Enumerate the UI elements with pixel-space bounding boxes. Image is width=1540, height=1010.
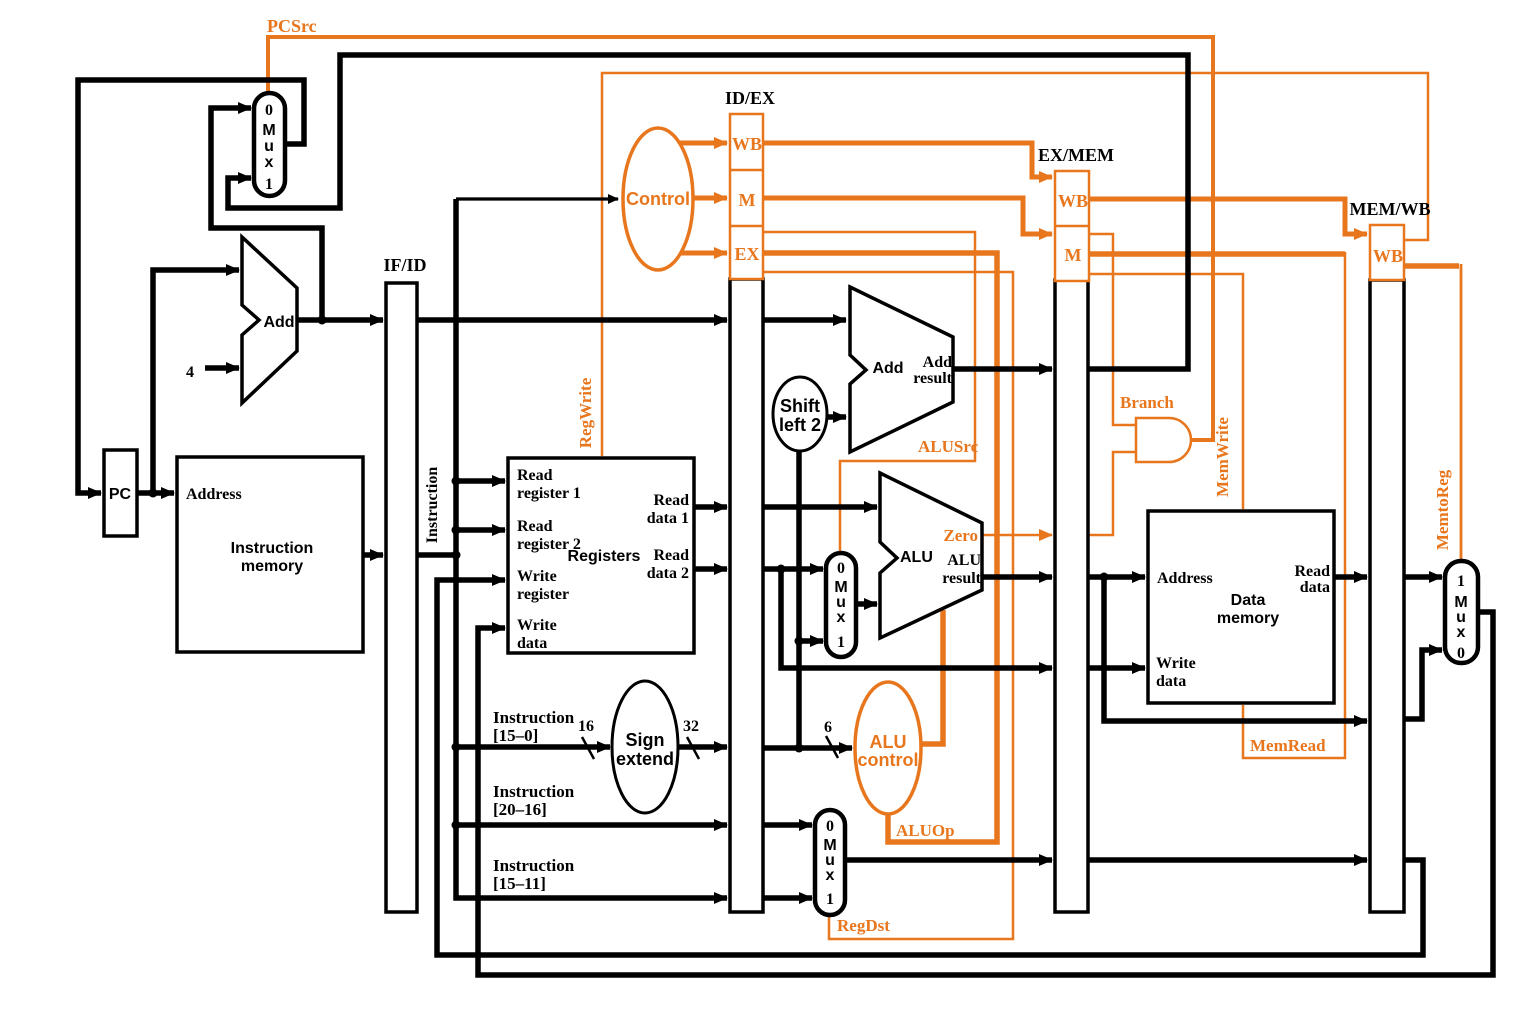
ALU xyxy=(880,473,982,638)
svg-text:Control: Control xyxy=(626,189,690,209)
svg-text:M: M xyxy=(739,190,756,210)
svg-text:RegDst: RegDst xyxy=(837,916,890,935)
svg-text:MemtoReg: MemtoReg xyxy=(1433,469,1452,550)
wire ALUSrc ID/EX to ALU B mux xyxy=(763,232,975,551)
svg-text:16: 16 xyxy=(578,718,594,735)
wire ALU result EX/MEM to data memory Address xyxy=(1089,574,1145,580)
svg-text:Read: Read xyxy=(653,492,689,509)
wire Instruction [20-16] ID/EX to RegDst mux xyxy=(763,822,812,828)
adder Add result (branch target) xyxy=(850,287,953,452)
svg-text:Add: Add xyxy=(872,360,903,377)
wire Control to ID/EX M xyxy=(692,196,727,201)
svg-text:Write: Write xyxy=(517,568,557,585)
svg-text:Read: Read xyxy=(517,467,553,484)
wire write data EX/MEM to data memory xyxy=(1089,665,1145,671)
wire immediate ID/EX to ALU control xyxy=(763,745,852,751)
svg-text:WB: WB xyxy=(732,134,762,154)
wire Read data 2 to EX/MEM write data xyxy=(781,569,1052,668)
svg-text:WB: WB xyxy=(1058,191,1088,211)
svg-text:Branch: Branch xyxy=(1120,393,1174,412)
svg-text:memory: memory xyxy=(241,558,303,575)
svg-text:0: 0 xyxy=(837,560,845,577)
mux M3 destination register xyxy=(815,810,845,915)
svg-text:Instruction: Instruction xyxy=(493,782,575,801)
pipeline register ID/EX xyxy=(725,88,775,912)
svg-text:PCSrc: PCSrc xyxy=(267,16,317,36)
wire Read data MEM/WB to result mux input 1 xyxy=(1404,574,1442,580)
wire WB bundle EX/MEM to MEM/WB xyxy=(1089,199,1367,234)
wire Zero ALU to EX/MEM xyxy=(982,534,1052,537)
svg-text:M: M xyxy=(262,122,275,139)
node instruction bus taps xyxy=(452,477,461,486)
sign extend unit xyxy=(612,681,678,813)
wire PC+4 IF/ID to ID/EX xyxy=(417,317,727,323)
svg-text:Add: Add xyxy=(263,314,294,331)
pipeline register MEM/WB xyxy=(1350,199,1431,912)
svg-text:Instruction: Instruction xyxy=(493,708,575,727)
svg-text:Zero: Zero xyxy=(943,526,978,545)
wire ALU result MEM/WB to result mux input 0 xyxy=(1404,650,1442,719)
node Read data 2 branch xyxy=(777,565,786,574)
svg-text:Instruction: Instruction xyxy=(424,467,441,544)
svg-text:control: control xyxy=(858,750,919,770)
svg-text:Address: Address xyxy=(1157,570,1213,587)
svg-text:PC: PC xyxy=(109,486,132,503)
wire PC to Add input 1 xyxy=(153,270,239,493)
svg-text:Registers: Registers xyxy=(568,548,641,565)
svg-text:[15–11]: [15–11] xyxy=(493,874,546,893)
wire instruction to Control xyxy=(456,197,618,200)
wire immediate to ALU B mux input 1 xyxy=(799,638,823,644)
svg-text:0: 0 xyxy=(1457,645,1465,662)
wire RegDst ID/EX to destination register mux xyxy=(763,272,1013,939)
wire M bundle ID/EX to EX/MEM xyxy=(763,198,1052,234)
wire ALU control to ALU xyxy=(919,610,943,744)
wire instruction memory to IF/ID xyxy=(363,552,383,558)
Registers block xyxy=(508,458,694,653)
wire sign extend to ID/EX xyxy=(678,744,727,750)
wire immediate up to shift left 2 xyxy=(796,450,802,748)
wire instruction to Read register 1 xyxy=(456,478,505,484)
svg-text:u: u xyxy=(264,138,274,155)
svg-text:Data: Data xyxy=(1231,592,1266,609)
svg-text:IF/ID: IF/ID xyxy=(383,255,426,275)
svg-text:Write: Write xyxy=(1156,655,1196,672)
svg-text:0: 0 xyxy=(826,818,834,835)
instruction memory xyxy=(177,457,363,652)
wire ALUOp ID/EX EX to ALU control xyxy=(763,253,997,842)
svg-text:Shift: Shift xyxy=(780,396,820,416)
PC register xyxy=(104,450,137,536)
svg-text:data 2: data 2 xyxy=(647,565,689,582)
wire PC+4 ID/EX to branch Add xyxy=(763,317,846,323)
svg-text:Address: Address xyxy=(186,486,242,503)
wire PC to instruction memory Address xyxy=(137,490,174,496)
wire write register number back to Registers xyxy=(437,580,1423,955)
svg-text:data 1: data 1 xyxy=(647,510,689,527)
svg-text:x: x xyxy=(837,609,846,626)
svg-text:MemRead: MemRead xyxy=(1250,736,1326,755)
svg-text:data: data xyxy=(1300,579,1330,596)
wire Instruction [15-0] to sign extend xyxy=(456,555,610,747)
wire WB bundle ID/EX to EX/MEM xyxy=(763,143,1052,177)
svg-text:ID/EX: ID/EX xyxy=(725,88,775,108)
wire Read data 1 ID/EX to ALU xyxy=(763,504,877,510)
wire Zero EX/MEM to AND gate xyxy=(1089,452,1136,535)
svg-text:Read: Read xyxy=(653,547,689,564)
wire Add result to EX/MEM xyxy=(953,366,1052,372)
svg-text:[15–0]: [15–0] xyxy=(493,726,538,745)
wire PCSrc from branch AND gate up and left to PC mux xyxy=(268,37,1213,440)
wire Add output feedback to PC mux input 0 xyxy=(211,108,322,320)
svg-text:memory: memory xyxy=(1217,610,1279,627)
svg-text:EX/MEM: EX/MEM xyxy=(1038,145,1114,165)
AND gate branch xyxy=(1136,418,1191,462)
node immediate branch to shift xyxy=(795,744,804,753)
svg-text:MEM/WB: MEM/WB xyxy=(1350,199,1431,219)
svg-text:extend: extend xyxy=(616,749,674,769)
svg-text:32: 32 xyxy=(683,718,699,735)
pipeline register IF/ID xyxy=(383,255,426,912)
wire Read data to MEM/WB xyxy=(1334,574,1367,580)
adder Add (PC+4) xyxy=(242,237,297,403)
wire Instruction [15-11] to ID/EX xyxy=(456,825,727,898)
shift left 2 unit xyxy=(773,377,827,451)
svg-text:4: 4 xyxy=(186,364,194,381)
wire instruction to Read register 2 xyxy=(456,527,505,533)
slash 6-bit xyxy=(826,736,838,758)
svg-text:6: 6 xyxy=(824,719,832,736)
slash 32-bit xyxy=(687,737,699,759)
wire RegDst mux to EX/MEM xyxy=(845,857,1052,863)
wire ALU B mux to ALU xyxy=(856,601,877,607)
wire MemWrite EX/MEM M to data memory xyxy=(1089,274,1243,509)
node Add output branch xyxy=(318,316,327,325)
svg-text:ALU: ALU xyxy=(947,552,981,569)
svg-text:0: 0 xyxy=(265,102,273,119)
wire Branch EX/MEM M to AND gate xyxy=(1089,234,1136,425)
pipeline register EX/MEM xyxy=(1038,145,1114,912)
svg-text:data: data xyxy=(1156,673,1186,690)
svg-text:Write: Write xyxy=(517,617,557,634)
wire branch target EX/MEM to PC mux input 1 xyxy=(228,55,1188,369)
data memory block xyxy=(1148,511,1334,703)
svg-text:register: register xyxy=(517,586,569,603)
svg-text:1: 1 xyxy=(826,891,834,908)
svg-text:ALUSrc: ALUSrc xyxy=(918,437,979,456)
wire shift left 2 to branch Add xyxy=(827,414,846,420)
mux M1 PC source xyxy=(254,93,285,196)
svg-text:x: x xyxy=(1457,624,1466,641)
svg-text:data: data xyxy=(517,635,547,652)
node immediate branch to mux xyxy=(795,637,804,646)
mux M4 write-back result xyxy=(1445,561,1478,663)
wire PC mux output to PC xyxy=(78,80,304,493)
wire Add output to IF/ID xyxy=(297,317,383,323)
svg-text:RegWrite: RegWrite xyxy=(576,377,595,448)
ALU control unit xyxy=(855,682,921,814)
wire RegWrite MEM/WB WB to Registers xyxy=(602,73,1428,456)
svg-text:ALU: ALU xyxy=(870,732,907,752)
svg-text:EX: EX xyxy=(734,244,759,264)
wire Instruction [15-11] ID/EX to RegDst mux xyxy=(763,895,812,901)
svg-text:x: x xyxy=(265,154,274,171)
wire Read data 1 to ID/EX xyxy=(694,504,727,510)
svg-text:1: 1 xyxy=(1457,573,1465,590)
wire result mux output back to Registers write data xyxy=(478,612,1493,975)
wire Control to ID/EX WB xyxy=(676,141,727,146)
svg-text:WB: WB xyxy=(1373,246,1403,266)
svg-text:left 2: left 2 xyxy=(779,415,821,435)
svg-text:[20–16]: [20–16] xyxy=(493,800,547,819)
svg-text:Read: Read xyxy=(517,518,553,535)
svg-text:ALU: ALU xyxy=(900,549,933,566)
node ALU result branch xyxy=(1100,573,1109,582)
wire Read data 2 to ID/EX xyxy=(694,566,727,572)
wire Instruction [20-16] to ID/EX xyxy=(456,747,727,825)
svg-text:result: result xyxy=(913,370,952,387)
slash 16-bit xyxy=(582,737,594,759)
svg-text:Sign: Sign xyxy=(626,730,665,750)
svg-text:MemWrite: MemWrite xyxy=(1213,417,1232,497)
Control unit xyxy=(623,128,693,270)
svg-text:ALUOp: ALUOp xyxy=(896,821,955,840)
svg-text:1: 1 xyxy=(837,634,845,651)
svg-text:Add: Add xyxy=(923,354,952,371)
mux M2 ALU operand B xyxy=(826,553,856,657)
svg-text:result: result xyxy=(942,570,981,587)
svg-text:M: M xyxy=(1065,245,1082,265)
wire ALU result bypass to MEM/WB xyxy=(1104,577,1367,721)
svg-text:x: x xyxy=(826,867,835,884)
wire constant 4 to Add input 2 xyxy=(205,365,239,371)
svg-text:Instruction: Instruction xyxy=(231,540,314,557)
wire instruction IF/ID to Control xyxy=(417,199,456,555)
wire MemtoReg MEM/WB WB to result mux xyxy=(1404,263,1459,269)
wire write register number EX/MEM to MEM/WB xyxy=(1089,857,1367,863)
wire ALU result to EX/MEM xyxy=(982,574,1052,580)
svg-text:Read: Read xyxy=(1294,563,1330,580)
wire Control to ID/EX EX xyxy=(676,251,727,256)
wire Read data 2 ID/EX to ALU B mux xyxy=(763,566,823,572)
wire MemRead EX/MEM M to data memory xyxy=(1089,251,1345,257)
svg-text:1: 1 xyxy=(265,176,273,193)
node PC output branch xyxy=(149,489,158,498)
svg-text:Instruction: Instruction xyxy=(493,856,575,875)
svg-text:register 1: register 1 xyxy=(517,485,581,502)
